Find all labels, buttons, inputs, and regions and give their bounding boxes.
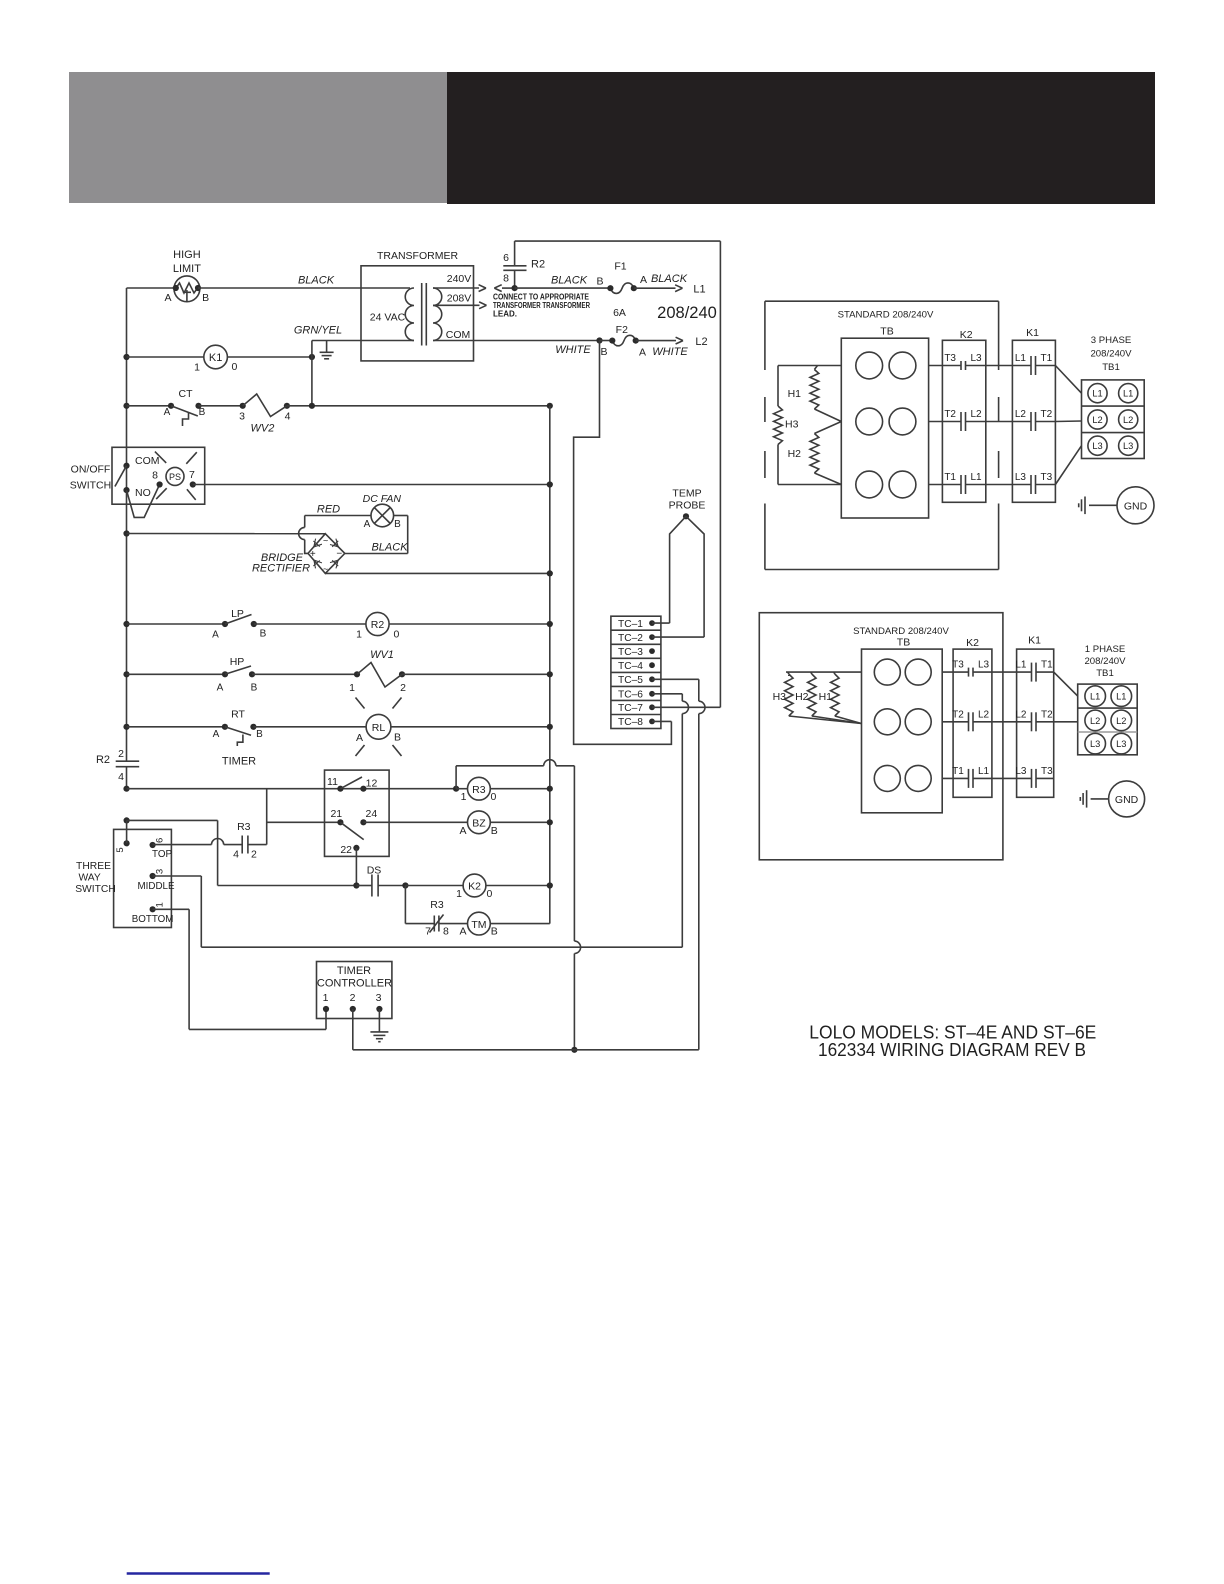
svg-text:B: B (491, 926, 498, 938)
svg-text:L1: L1 (1015, 660, 1027, 671)
svg-text:NO: NO (135, 487, 151, 499)
svg-text:1: 1 (356, 629, 362, 641)
svg-text:RED: RED (317, 504, 340, 516)
svg-text:T1: T1 (1041, 660, 1053, 671)
svg-text:BLACK: BLACK (551, 274, 588, 286)
svg-text:B: B (491, 825, 498, 837)
svg-text:B: B (260, 629, 267, 640)
svg-text:L3: L3 (1116, 739, 1126, 749)
svg-text:T3: T3 (1041, 472, 1053, 483)
svg-text:B: B (600, 346, 607, 358)
svg-text:F2: F2 (616, 324, 628, 336)
svg-text:240V: 240V (447, 273, 472, 285)
svg-text:STANDARD 208/240V: STANDARD 208/240V (838, 309, 934, 320)
svg-text:LP: LP (231, 608, 244, 620)
svg-text:1: 1 (155, 902, 166, 907)
svg-text:A: A (640, 274, 647, 286)
svg-text:HP: HP (230, 656, 245, 668)
svg-text:L2: L2 (1015, 709, 1027, 720)
svg-text:PROBE: PROBE (669, 500, 706, 512)
svg-text:L2: L2 (978, 709, 990, 720)
svg-text:8: 8 (503, 273, 509, 285)
svg-text:WAY: WAY (78, 873, 100, 884)
svg-text:WV1: WV1 (370, 649, 394, 661)
svg-text:A: A (639, 346, 646, 358)
svg-text:0: 0 (487, 888, 493, 900)
svg-text:TEMP: TEMP (672, 488, 701, 500)
svg-text:WV2: WV2 (250, 423, 274, 435)
svg-text:208/240V: 208/240V (1090, 349, 1132, 360)
svg-text:−: − (336, 549, 342, 560)
svg-text:T1: T1 (944, 472, 956, 483)
svg-text:4: 4 (285, 410, 291, 422)
svg-text:A: A (459, 926, 466, 938)
svg-text:T2: T2 (1041, 409, 1053, 420)
svg-text:DC FAN: DC FAN (363, 493, 402, 505)
svg-text:THREE: THREE (76, 861, 111, 872)
svg-text:TRANSFORMER: TRANSFORMER (377, 250, 459, 262)
svg-text:A: A (164, 292, 171, 304)
svg-text:3 PHASE: 3 PHASE (1091, 335, 1132, 346)
svg-text:T2: T2 (1041, 709, 1053, 720)
svg-text:WHITE: WHITE (652, 346, 688, 358)
svg-text:0: 0 (394, 629, 400, 641)
svg-text:B: B (251, 682, 258, 693)
svg-text:LIMIT: LIMIT (173, 263, 201, 275)
svg-text:B: B (596, 276, 603, 288)
svg-text:CONTROLLER: CONTROLLER (317, 977, 392, 989)
svg-text:GND: GND (1124, 500, 1148, 512)
svg-text:TB1: TB1 (1102, 362, 1120, 373)
svg-text:11: 11 (327, 776, 338, 788)
svg-text:K2: K2 (468, 881, 481, 893)
svg-text:TIMER: TIMER (337, 965, 371, 977)
svg-text:A: A (164, 407, 171, 418)
svg-text:R3: R3 (430, 899, 444, 911)
svg-text:TC–7: TC–7 (618, 703, 643, 714)
svg-text:SWITCH: SWITCH (75, 884, 116, 895)
svg-text:HIGH: HIGH (173, 249, 201, 261)
svg-text:A: A (217, 682, 224, 693)
svg-text:~: ~ (323, 536, 328, 546)
svg-text:24 VAC: 24 VAC (370, 311, 406, 323)
svg-text:K1: K1 (209, 352, 222, 364)
svg-text:H3: H3 (773, 691, 787, 703)
svg-text:T3: T3 (952, 660, 964, 671)
svg-text:L3: L3 (1092, 441, 1102, 451)
svg-text:2: 2 (350, 992, 356, 1004)
svg-text:1: 1 (323, 992, 329, 1004)
svg-text:RECTIFIER: RECTIFIER (252, 563, 310, 575)
svg-text:4: 4 (118, 771, 124, 783)
svg-text:4: 4 (233, 849, 239, 861)
svg-text:L1: L1 (1092, 389, 1102, 399)
svg-text:L2: L2 (1116, 716, 1126, 726)
svg-text:DS: DS (367, 865, 382, 877)
svg-text:L2: L2 (1015, 409, 1027, 420)
svg-text:22: 22 (340, 844, 352, 856)
svg-text:TM: TM (471, 919, 486, 931)
svg-text:COM: COM (135, 455, 160, 467)
svg-text:1: 1 (461, 791, 467, 803)
svg-text:TC–1: TC–1 (618, 619, 643, 630)
svg-text:1: 1 (349, 682, 355, 694)
svg-text:L3: L3 (1123, 441, 1133, 451)
svg-text:6: 6 (155, 838, 166, 843)
svg-text:GND: GND (1115, 794, 1139, 806)
svg-text:B: B (202, 292, 209, 304)
svg-text:R2: R2 (96, 754, 110, 766)
svg-text:R2: R2 (531, 259, 545, 271)
svg-text:K2: K2 (960, 329, 973, 341)
svg-text:F1: F1 (614, 261, 626, 273)
svg-text:H2: H2 (795, 691, 809, 703)
svg-text:2: 2 (400, 682, 406, 694)
svg-text:208/240: 208/240 (657, 304, 717, 322)
svg-text:TC–5: TC–5 (618, 675, 643, 686)
svg-text:LEAD.: LEAD. (493, 309, 517, 318)
svg-text:T2: T2 (952, 709, 964, 720)
svg-text:T3: T3 (1041, 766, 1053, 777)
svg-text:H2: H2 (788, 448, 802, 460)
svg-text:L1: L1 (1015, 353, 1027, 364)
svg-text:R2: R2 (371, 619, 385, 631)
svg-text:CT: CT (179, 388, 194, 400)
svg-text:7: 7 (425, 926, 431, 938)
svg-text:1: 1 (194, 362, 200, 374)
svg-text:L1: L1 (1090, 692, 1100, 702)
svg-text:T3: T3 (944, 353, 956, 364)
svg-text:1: 1 (456, 888, 462, 900)
svg-text:0: 0 (232, 361, 238, 373)
svg-text:A: A (213, 729, 220, 740)
svg-text:L2: L2 (1123, 415, 1133, 425)
svg-text:R3: R3 (472, 784, 486, 796)
svg-text:A: A (459, 825, 466, 837)
svg-text:BLACK: BLACK (371, 542, 408, 554)
svg-text:7: 7 (189, 469, 195, 481)
svg-text:6A: 6A (613, 307, 626, 319)
svg-text:L2: L2 (971, 409, 983, 420)
svg-text:208/240V: 208/240V (1084, 656, 1126, 667)
svg-text:24: 24 (366, 808, 378, 820)
svg-text:+: + (310, 549, 316, 560)
svg-text:TB1: TB1 (1096, 668, 1114, 679)
svg-text:3: 3 (239, 410, 245, 422)
svg-text:L1: L1 (1116, 692, 1126, 702)
svg-text:A: A (212, 630, 219, 641)
svg-text:6: 6 (503, 252, 509, 264)
svg-text:GRN/YEL: GRN/YEL (294, 325, 342, 337)
svg-text:L3: L3 (978, 660, 990, 671)
svg-text:208V: 208V (447, 292, 472, 304)
svg-text:TC–4: TC–4 (618, 661, 643, 672)
svg-text:3: 3 (155, 869, 166, 874)
svg-text:T2: T2 (944, 409, 956, 420)
svg-text:BZ: BZ (472, 818, 486, 830)
svg-text:K2: K2 (966, 637, 979, 649)
svg-text:8: 8 (152, 470, 158, 482)
svg-text:A: A (356, 732, 363, 744)
svg-text:L3: L3 (971, 353, 983, 364)
svg-text:COM: COM (446, 329, 471, 341)
svg-text:L2: L2 (1090, 716, 1100, 726)
svg-text:R3: R3 (237, 821, 251, 833)
svg-text:SWITCH: SWITCH (70, 479, 111, 491)
svg-text:B: B (394, 519, 401, 530)
svg-text:H1: H1 (819, 691, 833, 703)
svg-text:RT: RT (231, 709, 245, 721)
svg-text:BLACK: BLACK (298, 275, 335, 287)
svg-text:5: 5 (115, 847, 126, 852)
svg-text:H1: H1 (788, 388, 802, 400)
svg-text:8: 8 (443, 926, 449, 938)
svg-text:L1: L1 (693, 284, 705, 296)
svg-text:1 PHASE: 1 PHASE (1085, 644, 1126, 655)
svg-text:A: A (364, 519, 371, 530)
svg-text:0: 0 (491, 791, 497, 803)
svg-text:12: 12 (366, 778, 378, 790)
svg-text:MIDDLE: MIDDLE (137, 881, 174, 892)
svg-text:T1: T1 (952, 766, 964, 777)
svg-text:L2: L2 (695, 336, 707, 348)
svg-text:BLACK: BLACK (651, 273, 688, 285)
svg-text:L1: L1 (978, 766, 990, 777)
svg-text:TC–6: TC–6 (618, 690, 643, 701)
svg-text:T1: T1 (1041, 353, 1053, 364)
svg-text:L2: L2 (1092, 415, 1102, 425)
svg-text:B: B (256, 729, 263, 740)
svg-text:2: 2 (251, 849, 257, 861)
svg-text:TC–3: TC–3 (618, 647, 643, 658)
svg-text:TC–8: TC–8 (618, 717, 643, 728)
svg-text:L1: L1 (1123, 389, 1133, 399)
svg-text:WHITE: WHITE (555, 344, 591, 356)
svg-text:TOP: TOP (152, 849, 172, 860)
svg-text:2: 2 (118, 748, 124, 760)
svg-text:BOTTOM: BOTTOM (132, 914, 174, 925)
svg-text:3: 3 (376, 992, 382, 1004)
svg-text:162334 WIRING DIAGRAM REV B: 162334 WIRING DIAGRAM REV B (818, 1040, 1086, 1060)
svg-text:K1: K1 (1028, 634, 1041, 646)
svg-text:L1: L1 (971, 472, 983, 483)
svg-text:ON/OFF: ON/OFF (71, 463, 111, 475)
svg-text:RL: RL (372, 722, 386, 734)
svg-text:L3: L3 (1015, 472, 1027, 483)
svg-text:H3: H3 (785, 418, 799, 430)
svg-text:K1: K1 (1026, 327, 1039, 339)
svg-text:21: 21 (330, 808, 342, 820)
svg-text:L3: L3 (1090, 739, 1100, 749)
svg-text:PS: PS (169, 472, 181, 482)
svg-text:TB: TB (880, 325, 893, 337)
svg-text:L3: L3 (1015, 766, 1027, 777)
svg-text:TB: TB (897, 636, 910, 648)
svg-text:B: B (199, 407, 206, 418)
svg-text:TC–2: TC–2 (618, 633, 643, 644)
svg-text:B: B (394, 732, 401, 744)
svg-text:TIMER: TIMER (222, 756, 256, 768)
